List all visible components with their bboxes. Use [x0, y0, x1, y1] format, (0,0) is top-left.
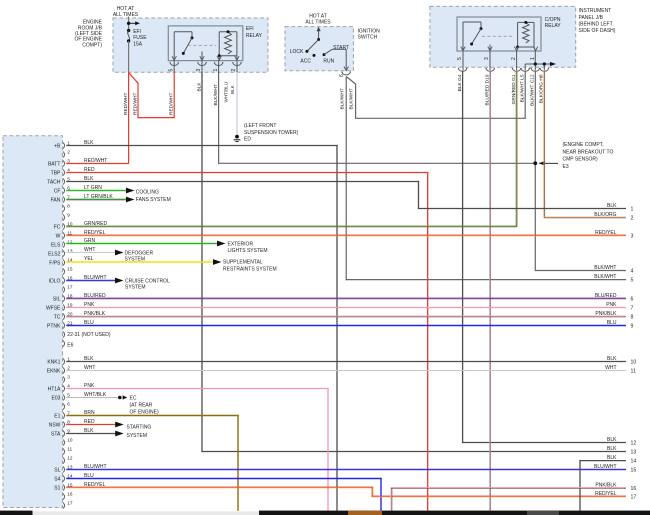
- ignition switch position labels: [290, 45, 349, 64]
- wire GRN: ECM pin12 ELS to exterior lights: [66, 241, 225, 247]
- svg-text:SUPPLEMENTAL: SUPPLEMENTAL: [223, 260, 263, 266]
- svg-text:CMP SENSOR): CMP SENSOR): [563, 157, 599, 163]
- svg-text:5: 5: [457, 57, 463, 60]
- label: E3 splice location: [563, 142, 614, 170]
- svg-text:BLK/WHT: BLK/WHT: [594, 265, 616, 271]
- wire RED/YEL: ECM pin11 W to terminal 3: [66, 234, 626, 237]
- svg-text:6: 6: [631, 297, 634, 303]
- node E3: splice junction: [533, 161, 558, 165]
- svg-text:BLK: BLK: [607, 455, 617, 461]
- svg-text:BLK: BLK: [84, 356, 94, 362]
- EFI relay switch contacts: [174, 32, 202, 61]
- wire BLK/WHT L5: C/OPN down to ignition branch B: [524, 71, 526, 119]
- svg-text:SUSPENSION TOWER): SUSPENSION TOWER): [244, 130, 299, 136]
- label: C/OPN RELAY: [545, 17, 562, 29]
- wire WHT/BLK: ECM pin5 E03 to EC splice: [66, 395, 127, 399]
- svg-text:17: 17: [67, 500, 73, 505]
- svg-text:PNK/BLK: PNK/BLK: [595, 482, 617, 488]
- svg-text:BLK: BLK: [84, 176, 94, 182]
- svg-text:PNK: PNK: [84, 302, 95, 308]
- wire PNK: ECM pin4 HT1A right then down off-page: [66, 388, 329, 511]
- wire YEL: ECM pin14 F/PS to SRS: [66, 259, 221, 265]
- svg-text:YEL: YEL: [84, 256, 94, 262]
- ECM connector E7 pin brackets and numbers 1-17: [63, 356, 73, 508]
- svg-text:WFSE: WFSE: [46, 305, 61, 311]
- svg-text:TC: TC: [54, 314, 61, 320]
- svg-text:WHT: WHT: [605, 365, 616, 371]
- svg-text:16: 16: [67, 275, 73, 280]
- wire PNK/BLK: terminal 16 from off-page: [391, 488, 626, 511]
- svg-text:ALL TIMES: ALL TIMES: [305, 20, 331, 26]
- wire BLK: EFI relay pin 3 down to terminal 13: [201, 72, 626, 452]
- svg-text:BLK/WHT: BLK/WHT: [348, 88, 354, 109]
- wire BLK: ECM pin5 TACH to terminal 1: [66, 181, 626, 209]
- junction block: INSTRUMENT PANEL J/B: [430, 6, 576, 67]
- svg-text:5: 5: [631, 278, 634, 284]
- switch: IGNITION SWITCH box: [285, 27, 353, 71]
- fuse EFI 15A: [127, 29, 130, 73]
- wire BLK/ORG H8: C/OPN down to terminal 2: [544, 71, 626, 218]
- svg-text:BRN: BRN: [84, 410, 95, 416]
- svg-text:WHT: WHT: [84, 247, 95, 253]
- svg-text:RELAY: RELAY: [545, 23, 562, 29]
- svg-text:BLK: BLK: [607, 356, 617, 362]
- svg-text:11: 11: [67, 446, 72, 451]
- svg-text:2: 2: [67, 149, 70, 154]
- svg-text:EKNK: EKNK: [47, 368, 61, 374]
- svg-text:CRUISE CONTROL: CRUISE CONTROL: [125, 278, 170, 284]
- label: STARTING SYSTEM: [127, 424, 152, 439]
- svg-text:SIL: SIL: [53, 296, 61, 302]
- svg-text:BLU/WHT: BLU/WHT: [84, 275, 107, 281]
- svg-text:PNK: PNK: [606, 302, 617, 308]
- svg-text:HOT AT: HOT AT: [309, 13, 327, 19]
- svg-text:HOT AT: HOT AT: [117, 6, 135, 12]
- svg-text:LT GRN/BLK: LT GRN/BLK: [84, 194, 113, 200]
- wire BLK/WHT C12: C/OPN pin1 down through E3 to terminal 4: [535, 71, 626, 272]
- wire RED: ECM pin8 NSW to starting system: [66, 422, 124, 428]
- label: IGNITION SWITCH: [358, 28, 381, 40]
- EFI relay connector pins 5,3,1,2: [168, 62, 241, 71]
- svg-text:FAN: FAN: [51, 197, 61, 203]
- svg-text:1: 1: [67, 140, 70, 145]
- wire RED/WHT: fuse branch to EFI relay pin 5: [129, 72, 175, 118]
- svg-text:RED/YEL: RED/YEL: [595, 491, 617, 497]
- svg-text:RED/YEL: RED/YEL: [84, 482, 106, 488]
- svg-text:1: 1: [213, 69, 219, 72]
- svg-text:7: 7: [631, 306, 634, 312]
- svg-text:PNK: PNK: [84, 383, 95, 389]
- wire BLU/WHT: ECM pin13 SL to terminal 15: [66, 469, 626, 471]
- wire BLK G4: C/OPN pin5 down to terminal 12: [462, 71, 626, 444]
- C/OPN relay coil: [516, 21, 536, 51]
- svg-text:IGNITION: IGNITION: [358, 28, 381, 34]
- svg-text:(ENGINE COMPT,: (ENGINE COMPT,: [563, 142, 604, 148]
- C/OPN relay pin stub wires through J/B edge: [463, 51, 544, 70]
- wire BLK/WHT: ignition pin6 branch A down to terminal 5: [346, 77, 626, 281]
- ECM connector E6 pin brackets and numbers 1-21: [63, 140, 73, 328]
- bottom bar brown segment: [348, 511, 382, 515]
- svg-text:(BEHIND LEFT: (BEHIND LEFT: [579, 21, 613, 27]
- wire BLU: ECM pin14 S4 right then down off-page: [66, 478, 382, 511]
- svg-text:22-31 (NOT USED): 22-31 (NOT USED): [67, 332, 111, 338]
- label: COOLING FANS SYSTEM: [136, 189, 171, 203]
- svg-text:5: 5: [67, 176, 70, 181]
- wire BLU/WHT: ECM pin16 IDLO to cruise control: [66, 278, 123, 284]
- wire GRN/RED G1: C/OPN pin2 down to ECM FC wire: [515, 71, 518, 227]
- svg-text:3: 3: [67, 158, 70, 163]
- svg-text:BLK/WHT: BLK/WHT: [339, 88, 345, 109]
- svg-text:E3: E3: [563, 164, 569, 170]
- svg-text:20: 20: [67, 311, 73, 316]
- wire BLK: ECM pin1 KNK1 to terminal 10: [66, 361, 626, 363]
- svg-text:RED: RED: [84, 419, 95, 425]
- svg-text:4: 4: [67, 383, 70, 388]
- svg-text:BLK: BLK: [230, 84, 235, 94]
- svg-text:BLK: BLK: [607, 203, 617, 209]
- label: Instrument Panel J/B location: [579, 8, 616, 34]
- svg-text:F/PS: F/PS: [49, 260, 61, 266]
- svg-text:PTNK: PTNK: [47, 323, 61, 329]
- svg-text:19: 19: [67, 302, 73, 307]
- svg-text:BLU: BLU: [84, 320, 94, 326]
- label: EXTERIOR LIGHTS SYSTEM: [228, 241, 268, 254]
- svg-text:TACH: TACH: [47, 179, 61, 185]
- svg-text:SL: SL: [54, 467, 60, 473]
- svg-text:11: 11: [67, 230, 72, 235]
- svg-text:FANS SYSTEM: FANS SYSTEM: [136, 197, 171, 203]
- svg-text:DEFOGGER: DEFOGGER: [125, 250, 154, 256]
- C/OPN relay pin exit arrows: [461, 47, 538, 51]
- wire BLK: terminal 14 from off-page: [579, 460, 626, 511]
- label: HOT AT ALL TIMES (left feed): [113, 6, 139, 18]
- bottom page-break bar right: [259, 511, 650, 515]
- svg-text:PNK/BLK: PNK/BLK: [595, 311, 617, 317]
- svg-text:RED/WHT: RED/WHT: [169, 93, 175, 115]
- relay: EFI RELAY outline: [168, 26, 243, 61]
- rotated labels for J/B wires: [457, 74, 545, 106]
- rotated labels WHT/BLU and BLK (relay pin2): [223, 82, 235, 103]
- svg-text:2: 2: [231, 69, 237, 72]
- node: battery feed junction with arrow: [127, 17, 140, 30]
- wire BLK/WHT: ignition pin6 branch B to C/OPN relay L5: [346, 77, 525, 119]
- svg-text:TBP: TBP: [51, 170, 61, 176]
- svg-text:FC: FC: [54, 224, 61, 230]
- svg-text:14: 14: [631, 459, 637, 465]
- svg-text:7: 7: [67, 410, 70, 415]
- svg-text:BLU: BLU: [607, 320, 617, 326]
- svg-text:BLK/ORG: BLK/ORG: [594, 212, 616, 218]
- svg-text:13: 13: [67, 464, 73, 469]
- ground ED (left front suspension tower): [234, 135, 241, 142]
- svg-text:9: 9: [631, 324, 634, 330]
- svg-text:4: 4: [67, 167, 70, 172]
- label: CRUISE CONTROL SYSTEM: [125, 278, 170, 290]
- wire WHT/BLU: EFI relay pin 2 to ground ED: [236, 72, 238, 134]
- svg-text:FUSE: FUSE: [133, 35, 147, 41]
- wire GRN/RED: ECM pin10 FC to C/OPN G1: [66, 225, 517, 228]
- svg-text:RED/WHT: RED/WHT: [84, 158, 107, 164]
- svg-text:COMPT): COMPT): [82, 42, 102, 48]
- svg-text:SIDE OF DASH): SIDE OF DASH): [579, 28, 616, 34]
- svg-text:21: 21: [67, 320, 73, 325]
- svg-text:RED/WHT: RED/WHT: [123, 93, 129, 115]
- label: HOT AT ALL TIMES (ignition feed): [305, 13, 331, 25]
- svg-text:SYSTEM: SYSTEM: [125, 285, 146, 291]
- svg-text:3: 3: [484, 57, 490, 60]
- svg-text:KNK1: KNK1: [47, 359, 60, 365]
- C/OPN pin1 bus with junction dots and arrow: [525, 51, 556, 66]
- svg-text:3: 3: [631, 234, 634, 240]
- svg-text:SYSTEM: SYSTEM: [127, 433, 148, 439]
- svg-text:E6: E6: [67, 342, 73, 348]
- svg-text:5: 5: [168, 69, 174, 72]
- wire BLK: ECM pin1 +B right then down off-page: [66, 145, 338, 511]
- svg-text:2: 2: [511, 57, 517, 60]
- svg-text:11: 11: [631, 369, 636, 375]
- svg-text:BLK: BLK: [196, 82, 202, 92]
- svg-text:18: 18: [67, 293, 73, 298]
- svg-text:9: 9: [67, 212, 70, 217]
- svg-text:E03: E03: [51, 395, 60, 401]
- svg-text:9: 9: [67, 428, 70, 433]
- svg-text:5: 5: [67, 392, 70, 397]
- svg-text:16: 16: [631, 486, 637, 492]
- C/OPN relay switch contacts: [463, 22, 490, 51]
- label: EFI RELAY: [246, 26, 263, 39]
- svg-text:RED/WHT: RED/WHT: [133, 93, 139, 115]
- label: Engine Room J/B location: [74, 20, 102, 49]
- wire BLU/RED: ECM pin18 SIL to terminal 6: [66, 297, 626, 300]
- svg-text:GRN/RED: GRN/RED: [84, 221, 107, 227]
- svg-text:STA: STA: [51, 431, 61, 437]
- svg-text:15: 15: [67, 482, 73, 487]
- svg-text:3: 3: [67, 374, 70, 379]
- label: DEFOGGER SYSTEM: [125, 250, 154, 262]
- svg-text:ELS2: ELS2: [48, 251, 60, 257]
- svg-text:6: 6: [67, 401, 70, 406]
- svg-text:BLU/WHT: BLU/WHT: [84, 464, 107, 470]
- svg-text:7: 7: [67, 194, 70, 199]
- wire BLK: ECM pin9 STA to starting system: [66, 431, 124, 437]
- svg-text:17: 17: [67, 284, 73, 289]
- svg-text:BLU/RED: BLU/RED: [595, 293, 617, 299]
- svg-text:LOCK: LOCK: [290, 49, 304, 55]
- wire LT GRN: ECM pin6 CF to cooling fans: [66, 188, 134, 194]
- svg-text:BLK/WHT: BLK/WHT: [213, 84, 219, 105]
- svg-text:4: 4: [631, 269, 634, 275]
- svg-text:CF: CF: [54, 188, 61, 194]
- svg-text:BLK: BLK: [84, 428, 94, 434]
- svg-text:WHT/BLK: WHT/BLK: [84, 392, 107, 398]
- svg-text:BLU/WHT: BLU/WHT: [594, 464, 617, 470]
- svg-text:RUN: RUN: [323, 59, 334, 65]
- svg-text:10: 10: [631, 360, 637, 366]
- junction block: ENGINE ROOM J/B: [113, 18, 268, 72]
- svg-text:BLK: BLK: [607, 446, 617, 452]
- svg-text:1: 1: [67, 356, 70, 361]
- svg-text:13: 13: [631, 450, 637, 456]
- svg-text:BLK/WHT: BLK/WHT: [594, 274, 616, 280]
- wire RED/WHT: EFI fuse to ECM pin 3 (BATT): [66, 72, 129, 164]
- svg-text:NEAR BREAKOUT TO: NEAR BREAKOUT TO: [563, 149, 614, 155]
- svg-text:14: 14: [67, 473, 73, 478]
- label: connector E6: [63, 340, 74, 348]
- svg-text:ED: ED: [244, 137, 251, 143]
- C/OPN relay armature dashed link: [482, 35, 514, 37]
- svg-text:(AT REAR: (AT REAR: [130, 402, 153, 408]
- svg-text:EXTERIOR: EXTERIOR: [228, 241, 254, 247]
- wire RED/YEL: ECM pin15 S1 jog to terminal 17: [66, 487, 626, 497]
- rotated labels BLK/WHT x2 (ignition): [339, 88, 354, 109]
- svg-text:ALL TIMES: ALL TIMES: [113, 12, 139, 18]
- svg-text:OF ENGINE): OF ENGINE): [130, 409, 160, 415]
- svg-text:RED/YEL: RED/YEL: [595, 230, 617, 236]
- svg-text:STARTING: STARTING: [127, 424, 152, 430]
- svg-text:BLU: BLU: [84, 473, 94, 479]
- label: SUPPLEMENTAL RESTRAINTS SYSTEM: [223, 260, 277, 273]
- wire BLU/RED D19: C/OPN pin3 down off-page: [489, 71, 492, 511]
- svg-text:S1: S1: [54, 485, 60, 491]
- svg-text:ACC: ACC: [300, 59, 311, 65]
- svg-text:PNK/BLK: PNK/BLK: [84, 311, 106, 317]
- svg-text:GRN: GRN: [84, 238, 96, 244]
- svg-text:+B: +B: [54, 143, 61, 149]
- wire LT GRN/BLK: ECM pin7 FAN to cooling fans: [66, 197, 134, 203]
- svg-text:RED/YEL: RED/YEL: [84, 230, 106, 236]
- EFI relay pin stub wires through J/B edge: [174, 61, 237, 73]
- wire BLK/WHT: EFI relay pin 1 to E3 junction: [219, 72, 536, 164]
- svg-text:ELS: ELS: [51, 242, 61, 248]
- right edge terminal labels and numbers 1-17: [594, 203, 636, 501]
- svg-text:INSTRUMENT: INSTRUMENT: [579, 8, 612, 14]
- svg-text:HT1A: HT1A: [48, 386, 61, 392]
- C/OPN relay pin numbers 5,3,2,1: [457, 57, 536, 60]
- wire PNK/BLK: ECM pin20 TC to terminal 8: [66, 315, 626, 318]
- svg-text:12: 12: [631, 441, 637, 447]
- EFI relay pin exit arrows: [172, 56, 239, 60]
- ECM pin name labels (connector E6): [46, 143, 61, 329]
- bottom bar gray segment: [527, 511, 559, 515]
- EFI relay coil: [218, 30, 237, 60]
- bottom page-break bar left: [0, 511, 33, 515]
- svg-text:RED: RED: [84, 167, 95, 173]
- wire RED: ECM pin4 TBP right then down off-page: [66, 172, 428, 511]
- svg-text:W: W: [56, 233, 61, 239]
- ECU: ECM connector box: [3, 136, 63, 508]
- label: EC at rear of engine: [130, 395, 160, 415]
- svg-text:2: 2: [631, 216, 634, 222]
- svg-text:8: 8: [631, 315, 634, 321]
- svg-text:3: 3: [196, 69, 202, 72]
- label: ED ground location: [244, 123, 299, 142]
- svg-text:EFI: EFI: [133, 29, 141, 35]
- svg-text:S4: S4: [54, 476, 60, 482]
- svg-text:NSW: NSW: [49, 422, 61, 428]
- svg-text:15: 15: [67, 266, 73, 271]
- label: pins 22-31 not used: [63, 331, 111, 337]
- svg-text:START: START: [333, 45, 349, 51]
- wire BRN: ECM pin7 E1 right then down off-page: [66, 415, 239, 511]
- svg-text:(LEFT FRONT: (LEFT FRONT: [244, 123, 276, 129]
- svg-text:8: 8: [67, 203, 70, 208]
- svg-text:C/OPN: C/OPN: [545, 17, 561, 23]
- svg-text:RESTRAINTS SYSTEM: RESTRAINTS SYSTEM: [223, 267, 277, 273]
- wire WHT: ECM pin13 ELS2 to defogger: [66, 250, 123, 256]
- label: EFI FUSE 15A: [133, 29, 147, 48]
- svg-text:BLU/RED: BLU/RED: [84, 293, 106, 299]
- svg-text:10: 10: [67, 221, 73, 226]
- ignition switch internals: contacts LOCK/ACC/START/RUN: [305, 27, 346, 71]
- ignition connector pin 6: [339, 67, 351, 77]
- svg-text:15A: 15A: [133, 42, 143, 48]
- svg-text:EC: EC: [130, 395, 137, 401]
- svg-text:17: 17: [631, 495, 637, 501]
- svg-text:12: 12: [67, 455, 73, 460]
- svg-text:WHT/BLU: WHT/BLU: [223, 82, 228, 103]
- svg-text:RELAY: RELAY: [246, 33, 263, 39]
- wire PNK: ECM pin19 WFSE to terminal 7: [66, 307, 626, 309]
- svg-text:BLK: BLK: [84, 140, 94, 146]
- svg-text:E1: E1: [54, 413, 60, 419]
- svg-text:16: 16: [67, 491, 73, 496]
- svg-text:15: 15: [631, 468, 637, 474]
- svg-text:6: 6: [339, 74, 345, 77]
- svg-text:IDLO: IDLO: [49, 278, 61, 284]
- svg-text:LT GRN: LT GRN: [84, 185, 102, 191]
- svg-text:1: 1: [631, 207, 634, 213]
- svg-text:6: 6: [67, 185, 70, 190]
- wire BLU: ECM pin21 PTNK to terminal 9: [66, 325, 626, 327]
- wire WHT: ECM pin2 EKNK to terminal 11: [66, 370, 626, 372]
- svg-text:PANEL J/B: PANEL J/B: [579, 15, 604, 21]
- svg-text:SWITCH: SWITCH: [358, 35, 378, 41]
- svg-text:WHT: WHT: [84, 365, 95, 371]
- svg-text:10: 10: [67, 437, 73, 442]
- relay: C/OPN RELAY outline: [457, 17, 541, 51]
- svg-text:COOLING: COOLING: [136, 189, 159, 195]
- svg-text:BLK: BLK: [607, 437, 617, 443]
- svg-text:BATT: BATT: [48, 161, 60, 167]
- rotated labels RED/WHT x3: [123, 93, 175, 115]
- bottom light strip: [33, 511, 260, 515]
- ECM pin name labels (connector E7): [47, 359, 61, 491]
- EFI relay armature dashed link: [188, 44, 216, 46]
- svg-text:EFI: EFI: [246, 26, 254, 32]
- svg-text:8: 8: [67, 419, 70, 424]
- svg-text:LIGHTS SYSTEM: LIGHTS SYSTEM: [228, 248, 268, 254]
- instrument panel J/B connector pins G4,D19,G1,L5,C12,H8: [458, 68, 549, 71]
- svg-text:2: 2: [67, 365, 70, 370]
